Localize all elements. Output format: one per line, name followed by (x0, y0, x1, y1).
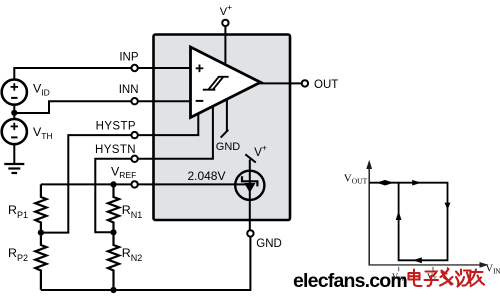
svg-text:OUT: OUT (314, 79, 338, 91)
loop arrow down (445, 203, 451, 210)
wire OUT (259, 82, 304, 84)
op-amp minus input mark (196, 100, 204, 102)
node dot R_P1/R_P2 (38, 230, 44, 236)
wire V_TH to ground (13, 144, 15, 163)
graph y-axis (368, 167, 370, 266)
resistor R_P1 (35, 184, 46, 232)
wire HYSTP (41, 113, 198, 233)
graph tick V_TL (398, 267, 400, 272)
reference circle D1 (235, 171, 264, 200)
resistor R_N1 (108, 184, 119, 232)
zener diode bar (242, 176, 257, 186)
watermark chinese 电子发烧友 (409, 269, 485, 287)
GND pin slash (221, 130, 229, 138)
svg-text:GND: GND (256, 238, 282, 250)
loop arrow left-right pair (376, 180, 385, 186)
svg-text:GND: GND (216, 141, 241, 153)
node dot VREF/R_N1 (110, 181, 116, 187)
node dot bottom rail (110, 287, 116, 293)
wire V_ID to V_TH (13, 105, 15, 119)
wire VREF rail (41, 183, 235, 185)
node dot V_ID/V_TH junction (11, 110, 17, 116)
wire INN (14, 101, 190, 113)
loop arrow up (396, 211, 402, 220)
terminal V+ (222, 20, 228, 26)
loop arrow bottom left (413, 257, 422, 263)
op-amp U1 (191, 47, 261, 118)
wire VREF into reference (235, 183, 250, 185)
terminal HYSTN (131, 156, 137, 162)
terminal INN (131, 98, 137, 104)
loop arrow top right (412, 180, 421, 186)
resistor R_N2 (108, 232, 119, 290)
terminal OUT (302, 80, 308, 86)
graph x-axis (369, 264, 482, 266)
wire reference vertical (249, 160, 251, 233)
node dot R_N1/R_N2 (110, 229, 116, 235)
svg-text:INP: INP (119, 51, 139, 63)
svg-text:HYSTP: HYSTP (96, 120, 136, 132)
resistor R_P2 (35, 233, 46, 290)
svg-text:elecfans.com: elecfans.com (293, 270, 407, 292)
switch blade to V+ (245, 154, 256, 162)
wire INP (14, 68, 190, 80)
source V_ID (2, 80, 27, 105)
wire V+ pin (224, 24, 226, 65)
terminal VREF (131, 181, 137, 187)
svg-text:INN: INN (119, 84, 139, 96)
wire HYSTN (95, 105, 213, 232)
terminal GND (247, 230, 253, 236)
svg-text:2.048V: 2.048V (187, 169, 225, 183)
hysteresis loop (369, 183, 447, 261)
source V_TH (2, 119, 27, 144)
zener diode triangle (244, 183, 255, 193)
terminal INP (131, 65, 137, 71)
IC box U1 (154, 35, 291, 221)
svg-text:HYSTN: HYSTN (95, 144, 136, 156)
graph tick V_TH (447, 267, 449, 272)
op-amp plus input mark (196, 67, 204, 69)
wire GND pin of op-amp (226, 99, 228, 131)
terminal HYSTP (131, 132, 137, 138)
hysteresis glyph (203, 77, 229, 90)
ground (4, 164, 24, 173)
graph tick mid (432, 267, 434, 272)
wire bottom rail to GND terminal (41, 237, 251, 290)
